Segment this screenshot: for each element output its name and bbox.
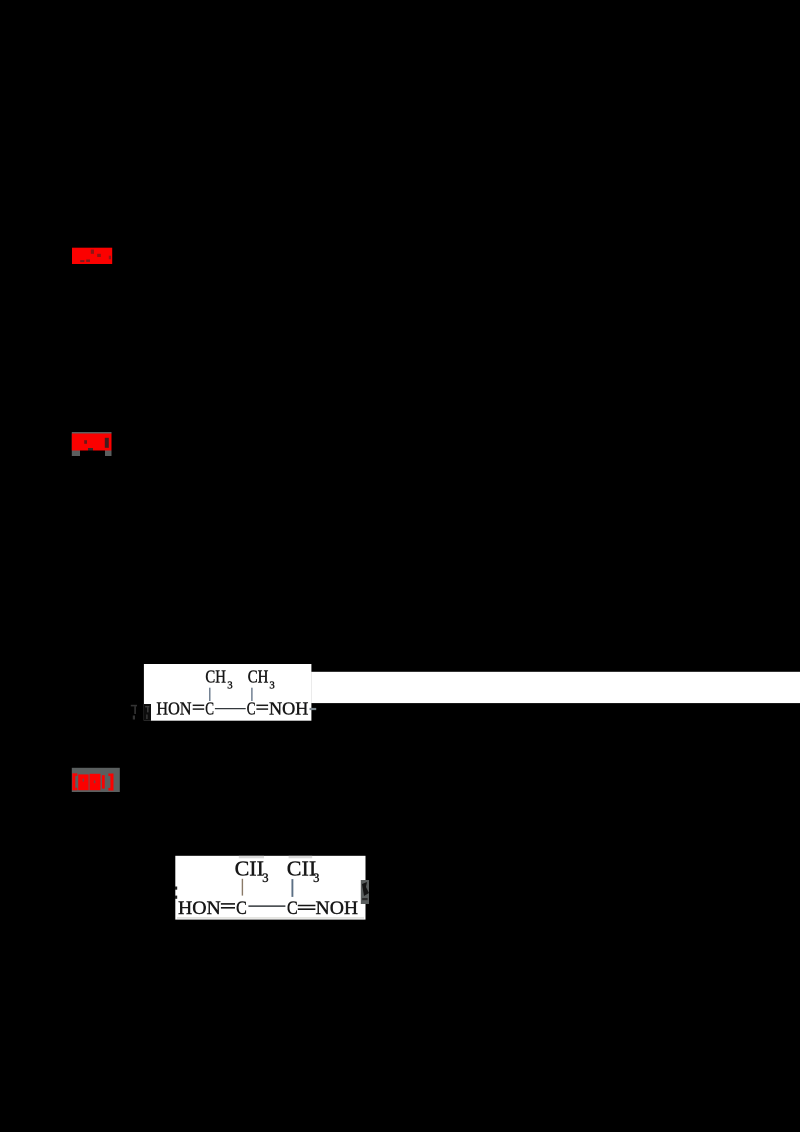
right bracket	[110, 774, 113, 791]
svg-text:3: 3	[227, 680, 232, 692]
svg-text:C: C	[236, 898, 247, 919]
svg-text:NOH: NOH	[316, 898, 359, 919]
faint underline inside bottom	[177, 917, 364, 918]
bond C-CH3 left	[209, 688, 211, 701]
C-C single bond	[215, 708, 246, 710]
C-C single bond	[248, 905, 285, 907]
svg-text:3: 3	[262, 871, 268, 885]
svg-text:CH: CH	[205, 667, 226, 687]
red answer marker 2 on gray highlight	[72, 432, 112, 456]
svg-text:C: C	[205, 698, 214, 718]
svg-text:CII: CII	[287, 856, 316, 880]
colon mark on left edge	[175, 887, 177, 890]
small gray text mark left of box 1	[131, 705, 137, 707]
white strip extending right	[311, 672, 800, 703]
light gray strips at top edge	[239, 856, 264, 859]
gray character patch at right edge	[361, 880, 369, 904]
svg-text:C: C	[247, 698, 256, 718]
svg-text:CII: CII	[235, 856, 264, 880]
bond left (brownish)	[241, 879, 243, 896]
svg-text:NOH: NOH	[269, 698, 309, 718]
gray tail dash past box edge	[310, 708, 317, 710]
structure text: CII3 CII3 over HON=C-C=NOH	[178, 856, 358, 919]
white image box 2 (oxime structure, larger)	[175, 856, 369, 920]
white image box 1 (oxime structure)	[131, 664, 800, 721]
bond right (blue-gray)	[291, 879, 293, 897]
svg-text:3: 3	[313, 871, 319, 885]
left bracket	[72, 773, 75, 790]
glyph blocks	[78, 774, 88, 790]
svg-text:CH: CH	[248, 667, 269, 687]
bond C-CH3 right	[251, 688, 253, 701]
svg-text:3: 3	[269, 680, 274, 692]
dark corner notch bottom-left of box 1	[144, 704, 151, 721]
structure text: CH3 CH3 over HON=C-C=NOH	[156, 667, 316, 719]
svg-text:HON: HON	[178, 898, 221, 919]
red answer marker 1	[72, 248, 112, 264]
texture gaps	[83, 779, 84, 782]
red analysis marker 3 on gray highlight	[72, 768, 120, 792]
svg-text:C: C	[287, 898, 298, 919]
svg-text:HON: HON	[156, 698, 191, 718]
